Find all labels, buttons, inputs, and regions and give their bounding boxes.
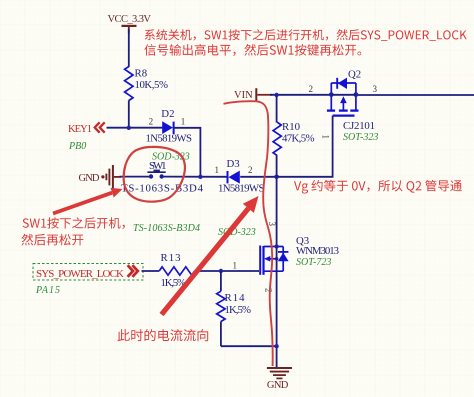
svg-text:1N5819WS: 1N5819WS	[146, 133, 193, 145]
power flag VCC_3.3V	[108, 14, 152, 34]
svg-text:TS-1063S-B3D4: TS-1063S-B3D4	[133, 223, 200, 234]
switch SW1 TS-1063S-B3D4	[121, 160, 204, 195]
svg-text:VCC_3.3V: VCC_3.3V	[108, 14, 152, 25]
svg-text:SOT-323: SOT-323	[343, 132, 378, 143]
transistor Q2 CJ2101 (PMOS)	[327, 68, 375, 132]
svg-text:GND: GND	[79, 173, 100, 184]
wire Q2 channel row	[331, 94, 356, 96]
svg-text:R13: R13	[161, 252, 181, 264]
wire Q2 gate to node Vg	[278, 116, 333, 177]
net port SYS_POWER_LOCK	[33, 264, 143, 281]
svg-text:SOT-723: SOT-723	[296, 257, 331, 268]
svg-text:WNM3013: WNM3013	[296, 245, 339, 257]
junction GND column	[274, 344, 278, 348]
transistor Q3 WNM3013 (NMOS)	[260, 235, 339, 275]
net port KEY1	[68, 122, 105, 135]
junction D2/SW1 row	[198, 175, 202, 179]
junction node Vg	[274, 175, 279, 180]
wire R8 to KEY1 row	[128, 101, 130, 128]
svg-text:47K,5%: 47K,5%	[282, 132, 315, 144]
svg-text:R14: R14	[225, 292, 246, 304]
port VIN	[234, 88, 257, 101]
resistor R14	[217, 271, 251, 346]
wire R14 to GND column	[221, 345, 277, 347]
resistor R8	[125, 67, 168, 101]
red current-flow curve	[224, 101, 273, 366]
wire KEY1 to D2	[107, 127, 163, 129]
junction R13/R14	[219, 269, 223, 273]
svg-text:GND: GND	[267, 380, 289, 391]
diode D2 1N5819WS	[146, 108, 193, 145]
svg-text:D2: D2	[161, 108, 174, 120]
red arrow to SW1	[53, 188, 123, 214]
wire R13 to Q3 gate	[195, 270, 259, 272]
svg-text:1: 1	[181, 116, 186, 126]
wire VCC to R8	[128, 29, 130, 67]
wire D2 cathode down to SW1 row	[174, 128, 201, 177]
svg-text:1N5819WS: 1N5819WS	[218, 183, 265, 195]
wire SW1 to D3	[164, 176, 228, 178]
svg-text:PA15: PA15	[35, 285, 60, 296]
svg-text:KEY1: KEY1	[68, 124, 92, 135]
junction KEY1/R8	[127, 126, 131, 130]
wire through Q3	[276, 247, 278, 272]
svg-text:R8: R8	[135, 68, 148, 80]
wire VIN rail	[257, 94, 272, 96]
svg-text:3: 3	[373, 84, 378, 94]
svg-text:CJ2101: CJ2101	[343, 120, 375, 132]
ground GND bottom	[267, 368, 292, 391]
svg-text:D3: D3	[227, 158, 240, 170]
svg-text:1K,5%: 1K,5%	[225, 304, 252, 316]
red note line 1	[145, 29, 467, 41]
svg-text:TS-1063S-B3D4: TS-1063S-B3D4	[121, 183, 204, 195]
svg-text:2: 2	[264, 288, 274, 293]
resistor R10	[273, 95, 314, 177]
wire node Vg down to Q3 drain	[276, 177, 278, 247]
wire GND to SW1	[120, 176, 150, 178]
svg-text:VIN: VIN	[234, 90, 253, 101]
junction VIN/R10	[274, 93, 278, 97]
resistor R13	[159, 252, 194, 289]
wire SYS_POWER_LOCK to R13	[142, 270, 160, 272]
svg-text:1: 1	[215, 165, 220, 175]
svg-text:Q2: Q2	[348, 68, 361, 80]
red note SW1 press line 1	[23, 217, 125, 229]
svg-text:SW1: SW1	[149, 160, 167, 172]
svg-text:2: 2	[309, 84, 314, 94]
net port GND left	[79, 165, 122, 189]
red arrow to D3 node	[162, 196, 259, 315]
svg-text:2: 2	[149, 116, 154, 126]
red note current flow	[118, 329, 209, 341]
svg-text:R10: R10	[282, 121, 300, 133]
red ellipse around SW1	[124, 147, 185, 202]
red note line 2	[144, 44, 361, 56]
red note SW1 press line 2	[21, 234, 83, 246]
wire D3 to column B	[240, 176, 276, 178]
svg-text:1: 1	[321, 135, 331, 140]
svg-text:1: 1	[233, 260, 238, 270]
diode D3 1N5819WS	[215, 158, 265, 195]
svg-text:PB0: PB0	[68, 141, 86, 152]
svg-text:2: 2	[248, 165, 253, 175]
red note Vg	[294, 180, 462, 194]
wire Q3 source to GND	[276, 271, 278, 368]
svg-text:10K,5%: 10K,5%	[135, 79, 169, 91]
svg-text:SYS_POWER_LOCK: SYS_POWER_LOCK	[36, 268, 124, 280]
